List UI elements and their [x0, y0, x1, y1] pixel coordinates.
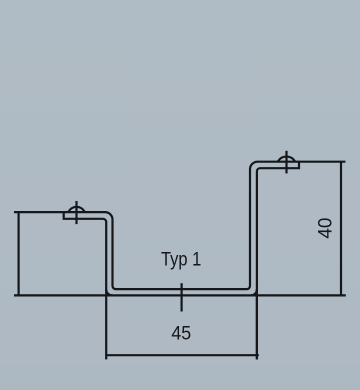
svg-text:Typ 1: Typ 1: [161, 249, 201, 270]
profile lower surface right (45 extension line + right wall right side, flange bottom, right cut edge): [257, 161, 299, 359]
dimension line 40: [340, 162, 342, 296]
node left height extension vertical: [18, 212, 20, 295]
screw right dome head: [278, 157, 296, 162]
wire baseline / outer bottom surface: [14, 294, 346, 296]
screw left dome head: [68, 207, 85, 212]
center tick below Typ 1: [181, 283, 183, 311]
screw left centerline: [75, 201, 77, 224]
dimension line 45: [106, 354, 259, 356]
profile upper surface (flange top, left wall right side, channel inner bottom, right wall left side, right flange top): [14, 162, 345, 289]
profile bottom-right outer bend: [251, 289, 257, 295]
profile bottom-left outer bend: [106, 289, 112, 295]
svg-text:40: 40: [315, 218, 336, 239]
svg-text:45: 45: [171, 324, 191, 345]
screw right centerline: [285, 151, 287, 174]
dimension 45 extension overshoot right: [256, 289, 258, 359]
profile lower surface (left cut edge, flange bottom, left wall left side + 45 extension line): [64, 211, 106, 359]
